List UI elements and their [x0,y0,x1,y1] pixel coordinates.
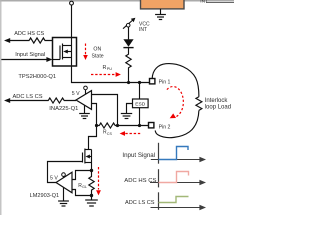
svg-text:5 V: 5 V [50,176,58,182]
op-amp U2 INA225-Q1 [76,91,92,110]
wire VOUT to Pin 1 [72,66,150,83]
input signal wire [1,57,52,62]
wire comparator out to Q2 gate [48,162,83,183]
orange block (cropped module) [141,0,185,9]
pin 2 terminal [149,123,171,131]
svg-text:ADC LS CS: ADC LS CS [13,94,43,100]
timing label Input Signal [122,152,155,159]
red arrow R_GL current [96,167,101,195]
red return current arrow [120,131,141,136]
trace ADC HS CS [159,172,189,183]
label TPS2H000-Q1 [18,74,56,80]
resistor R_PU [126,48,131,83]
label ON State [92,46,104,59]
svg-text:INT: INT [139,27,147,33]
supply VCC INT test point [123,18,135,40]
label R_PU [103,65,113,71]
svg-text:Pin 1: Pin 1 [159,79,171,85]
svg-text:INA225-Q1: INA225-Q1 [49,106,78,112]
ground at ESD [121,114,132,119]
wire Q2 source to R_GL [91,163,93,171]
svg-text:ADC HS CS: ADC HS CS [124,178,156,184]
junction pin2 wire ESD [138,124,141,127]
INA input wire top [92,95,118,126]
wire comparator -in loop [72,190,92,196]
svg-text:ESD: ESD [135,102,146,108]
left border [0,0,2,215]
ground R_GL [85,196,98,207]
resistor HS sense to ADC [4,38,53,43]
trace Input Signal [159,147,189,160]
junction on VOUT wire at pull-up [127,81,130,84]
wire top net (cropped) [0,0,234,5]
R_PU current arrow [91,72,121,77]
timing axis row2 [150,169,206,187]
interlock loop wire upper [152,64,199,97]
ON state arrow [83,44,88,61]
ground INA [79,105,90,118]
label R_CS [103,130,112,136]
timing label ADC HS CS [124,178,156,184]
supply 5V comparator [50,173,65,182]
timing label ADC LS CS [125,200,155,206]
red loop current arc [167,87,183,119]
svg-text:INT: INT [200,0,208,5]
svg-text:Input Signal: Input Signal [122,152,155,159]
wire comparator +in loop [72,171,92,180]
label Interlock loop Load [205,98,231,111]
svg-text:ADC HS CS: ADC HS CS [14,31,44,37]
svg-text:PU: PU [107,67,113,71]
comparator U3 LM2903-Q1 [56,172,72,193]
trace ADC LS CS [159,197,189,203]
wire ESD branch pin1 to pin2 [139,83,141,126]
timing axis row1 [151,143,206,164]
svg-text:LM2903-Q1: LM2903-Q1 [30,193,60,199]
diode D1 [123,39,133,47]
label Input Signal [15,52,45,58]
svg-text:ON: ON [93,46,101,52]
label VCC INT [139,21,150,32]
transistor Q2 [83,149,92,164]
label R_GL [78,183,87,189]
svg-text:5 V: 5 V [72,91,80,97]
label INA225-Q1 [49,106,78,112]
ground comparator [58,188,69,207]
drain wire to Q2 [89,126,97,150]
INA input wire bottom [92,104,97,126]
pin 1 terminal [150,79,171,86]
interlock loop load resistor [196,97,202,111]
wire ESD to ground [127,104,133,114]
resistor R_CS [95,123,119,128]
ESD cell [133,99,149,108]
junction R_GL bottom [90,194,93,197]
label ADC LS CS [13,94,43,100]
junction on VOUT wire at ESD branch [138,81,141,84]
svg-text:loop Load: loop Load [205,105,231,111]
resistor LS sense to ADC [4,98,76,103]
svg-text:Pin 2: Pin 2 [159,124,171,130]
node VS [70,1,74,5]
supply 5V INA [72,86,87,97]
timing axis row3 [151,192,207,210]
resistor R_GL [89,171,94,196]
wire VS to U1 [71,5,73,38]
label ADC HS CS [14,31,44,37]
svg-text:Input Signal: Input Signal [15,52,45,58]
svg-text:Interlock: Interlock [205,98,229,104]
svg-text:TPS2H000-Q1: TPS2H000-Q1 [18,74,56,80]
svg-text:GL: GL [82,185,87,189]
svg-text:State: State [92,54,104,60]
svg-text:ADC LS CS: ADC LS CS [125,200,155,206]
ground below orange block [155,9,166,20]
high-side switch U1 TPS2H000-Q1 [53,38,77,67]
junction R_GL top [90,169,93,172]
label LM2903-Q1 [30,193,60,199]
interlock loop wire lower [155,110,199,137]
svg-text:CS: CS [107,132,113,136]
wire pin2 row [118,125,149,127]
